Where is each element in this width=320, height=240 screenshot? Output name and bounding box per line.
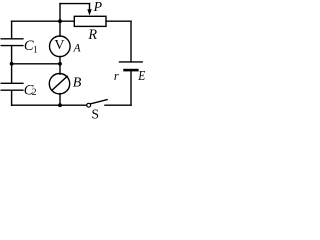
wire middle rail (node between C1 and C2 to meters) (12, 63, 60, 65)
voltmeter V circle (50, 36, 71, 57)
svg-text:R: R (87, 27, 97, 43)
svg-text:P: P (93, 0, 103, 14)
wire left side middle (C1 bottom plate to C2 top plate) (11, 46, 13, 84)
capacitor C1 bottom plate (1, 45, 23, 47)
meter B circle (49, 74, 69, 94)
junction node rail-meters (58, 62, 62, 66)
wire bottom-left (switch to left corner) (12, 104, 87, 106)
svg-text:1: 1 (33, 46, 38, 56)
switch S pivot circle (87, 103, 91, 107)
wire slider feed vertical from top node (59, 4, 61, 22)
capacitor C2 bottom plate (1, 89, 23, 91)
meter B needle diagonal (52, 76, 67, 90)
svg-text:2: 2 (32, 88, 37, 98)
wire top-right horizontal (rheostat to right corner) (106, 20, 131, 22)
wire top-left horizontal (corner to rheostat) (12, 20, 75, 22)
battery E short thick plate (125, 69, 138, 72)
capacitor C2 top plate (1, 82, 23, 84)
junction node left mid-rail (10, 62, 14, 66)
junction node bottom (58, 103, 62, 107)
wire voltmeter-to-B lead through rail (59, 57, 61, 75)
junction node top (wire to V and slider) (58, 19, 62, 23)
rheostat R body (74, 16, 106, 26)
svg-text:B: B (73, 76, 82, 91)
svg-text:V: V (54, 38, 64, 53)
wire left side lower (C2 bottom plate to bottom corner) (11, 90, 13, 105)
svg-text:S: S (92, 106, 100, 121)
capacitor C1 top plate (1, 38, 23, 40)
slider P arrowhead (87, 9, 91, 15)
wire right side lower (battery to bottom corner) (130, 71, 132, 105)
wire slider stem down to arrow (89, 4, 91, 10)
wire left side upper (corner to C1 top plate) (11, 21, 13, 39)
wire bottom-right (corner to switch) (105, 104, 131, 106)
wire B bottom lead (59, 94, 61, 106)
svg-text:A: A (73, 42, 82, 55)
wire voltmeter top lead (59, 21, 61, 36)
wire right side upper (corner down to battery) (130, 21, 132, 62)
svg-text:E: E (137, 68, 145, 83)
svg-text:r: r (114, 69, 119, 83)
battery E long plate (120, 61, 143, 63)
switch S blade (90, 100, 107, 104)
wire slider feed horizontal (60, 3, 90, 5)
